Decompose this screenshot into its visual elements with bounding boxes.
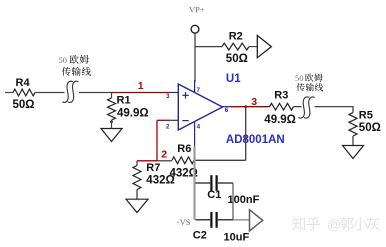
pin 4 stub (V-): [194, 121, 196, 147]
op-amp U1 triangle: [178, 84, 222, 130]
svg-text:49.9Ω: 49.9Ω: [264, 114, 296, 126]
svg-text:R2: R2: [229, 30, 243, 42]
svg-text:R3: R3: [274, 90, 288, 102]
wire input left stub: [5, 92, 13, 94]
port connector (bottom, -VS): [250, 210, 263, 231]
wire C2 to port (gray): [233, 219, 250, 221]
node 2 wire vertical (red): [156, 120, 158, 161]
pin 6 stub (output): [223, 106, 231, 108]
svg-text:3: 3: [251, 96, 257, 108]
svg-text:C1: C1: [207, 189, 221, 201]
wire transmission line to node 1 junction: [79, 92, 112, 94]
pin 3 stub (non-inverting input): [170, 92, 178, 94]
wire node2 to R7 (red): [137, 160, 157, 162]
terminal VP+ (open circle): [191, 25, 199, 33]
feedback wire horizontal to R6: [195, 159, 246, 161]
wire R3 to transmission line: [294, 106, 302, 108]
svg-text:1: 1: [138, 80, 144, 92]
svg-text:R6: R6: [177, 143, 191, 155]
wire transmission line to R5: [315, 107, 354, 113]
node 3 wire (red): [230, 106, 270, 108]
svg-text:50Ω: 50Ω: [226, 53, 248, 65]
svg-text:49.9Ω: 49.9Ω: [117, 108, 149, 120]
svg-text:50: 50: [295, 73, 304, 83]
resistor R6: [172, 157, 194, 164]
svg-text:VP+: VP+: [189, 4, 205, 14]
resistor R7: [133, 161, 141, 199]
junction output node: [244, 105, 247, 108]
ground (under R7): [126, 199, 148, 212]
svg-text:R1: R1: [117, 95, 131, 107]
pin 7 stub (V+): [194, 80, 196, 92]
resistor R3: [270, 103, 294, 110]
resistor R4: [13, 89, 35, 96]
watermark 知乎 @郭小灰: [292, 216, 379, 232]
svg-text:10uF: 10uF: [224, 232, 250, 244]
-VS rail (gray): [193, 146, 195, 220]
label 50欧姆 传输线 (left transmission line): [59, 55, 91, 76]
port connector (top right, after R2): [257, 36, 271, 58]
ground (under R1): [101, 129, 122, 142]
svg-text:7: 7: [197, 87, 201, 94]
ground (under R5): [343, 146, 364, 159]
svg-text:3: 3: [166, 93, 170, 100]
svg-text:R5: R5: [359, 109, 373, 121]
svg-text:U1: U1: [226, 73, 241, 85]
svg-text:6: 6: [225, 107, 229, 114]
svg-text:100nF: 100nF: [228, 194, 260, 206]
svg-text:4: 4: [197, 124, 201, 131]
wire C1 drop to C2 row: [232, 183, 234, 220]
transmission line symbol (right): [299, 97, 315, 118]
svg-text:2: 2: [161, 148, 167, 160]
capacitor C1: [196, 175, 234, 191]
svg-text:432Ω: 432Ω: [146, 175, 174, 187]
svg-text:50: 50: [59, 55, 68, 65]
label 50欧姆 传输线 (right transmission line): [295, 73, 323, 91]
node 2 wire horizontal (red): [157, 119, 170, 121]
node 1 wire (red): [112, 92, 171, 94]
capacitor C2: [196, 212, 234, 228]
svg-text:50Ω: 50Ω: [13, 99, 35, 111]
feedback wire vertical from output: [245, 107, 247, 161]
resistor R5: [349, 113, 357, 146]
svg-text:C2: C2: [193, 229, 207, 241]
resistor R1: [108, 93, 116, 129]
op-amp plus sign: [182, 92, 188, 98]
resistor R2: [222, 43, 249, 50]
svg-text:R7: R7: [146, 162, 160, 174]
pin 2 stub (inverting input): [170, 119, 178, 121]
transmission line symbol (left): [63, 81, 79, 102]
wire R2 to port: [249, 46, 257, 48]
svg-text:AD8001AN: AD8001AN: [226, 134, 285, 146]
svg-text:@: @: [327, 216, 341, 232]
wire R4 to transmission line: [35, 92, 65, 94]
wire junction to R2: [195, 46, 222, 48]
wire VP+ to pin 7: [194, 34, 196, 83]
svg-text:R4: R4: [16, 77, 31, 89]
wire node2 to R6: [157, 160, 172, 162]
op-amp minus sign: [182, 120, 188, 122]
svg-text:2: 2: [166, 123, 170, 130]
svg-text:-VS: -VS: [177, 217, 191, 227]
svg-text:50Ω: 50Ω: [359, 122, 381, 134]
